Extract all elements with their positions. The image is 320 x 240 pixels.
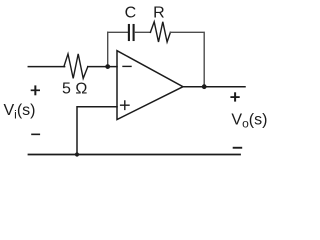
resistor R <box>150 22 170 42</box>
wire top rail to capacitor <box>108 31 128 33</box>
wire input left <box>28 66 64 68</box>
wire top rail right and feedback drop <box>170 32 204 86</box>
wire riser junction to top rail <box>107 32 109 66</box>
node bottom junction <box>75 152 79 156</box>
capacitor C <box>129 25 134 40</box>
wire capacitor to resistor R <box>135 31 151 33</box>
wire bottom rail <box>29 154 241 156</box>
wire noninverting input <box>77 107 117 155</box>
resistor R1 5 ohm <box>64 54 88 79</box>
label minus input polarity <box>31 133 40 135</box>
svg-text:Vi(s): Vi(s) <box>4 102 36 121</box>
svg-text:R: R <box>153 4 165 21</box>
op-amp U1 <box>117 51 183 120</box>
label plus output polarity <box>230 92 239 101</box>
wire resistor to inverting input <box>88 66 117 68</box>
label minus output polarity <box>233 147 243 149</box>
node input junction <box>105 64 110 69</box>
op-amp plus marker <box>121 101 129 109</box>
svg-text:C: C <box>125 5 137 22</box>
wire output <box>183 86 245 88</box>
label plus input polarity <box>31 85 40 95</box>
node output junction <box>202 84 207 89</box>
svg-text:5 Ω: 5 Ω <box>62 81 87 98</box>
svg-text:Vo(s): Vo(s) <box>231 112 267 131</box>
op-amp minus marker <box>123 65 131 67</box>
